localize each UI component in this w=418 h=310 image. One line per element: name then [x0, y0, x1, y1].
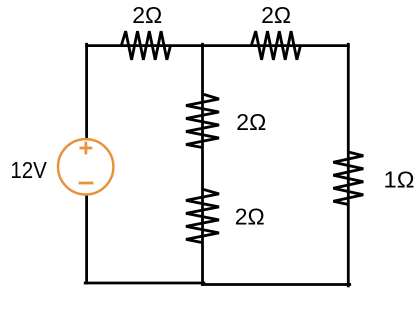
- wire middle branch vertical: [201, 44, 204, 284]
- wire top horizontal: [87, 44, 349, 47]
- wire bottom right segment: [203, 283, 350, 286]
- resistor R3 2ohm middle upper: [186, 94, 219, 148]
- wire top (node between source + and resistors): [85, 44, 350, 286]
- svg-text:2Ω: 2Ω: [235, 203, 265, 229]
- voltage source plus sign: [80, 142, 93, 155]
- svg-text:2Ω: 2Ω: [132, 2, 162, 28]
- wire left upper (source to top-left corner): [85, 44, 88, 139]
- resistor R4 2ohm middle lower: [186, 189, 219, 242]
- resistor R2 2ohm top-right: [251, 31, 300, 60]
- resistor R5 1ohm right: [333, 152, 363, 205]
- svg-text:2Ω: 2Ω: [236, 109, 266, 135]
- wire left lower (source to bottom-left corner): [85, 195, 88, 283]
- svg-text:1Ω: 1Ω: [384, 167, 415, 193]
- voltage source V1 circle: [58, 139, 113, 194]
- svg-text:12V: 12V: [10, 157, 47, 183]
- voltage source minus sign: [79, 182, 94, 185]
- wire right branch vertical: [347, 44, 350, 286]
- wire bottom left segment: [85, 282, 204, 285]
- resistor R1 2ohm top-left: [121, 31, 170, 60]
- svg-text:2Ω: 2Ω: [261, 2, 291, 28]
